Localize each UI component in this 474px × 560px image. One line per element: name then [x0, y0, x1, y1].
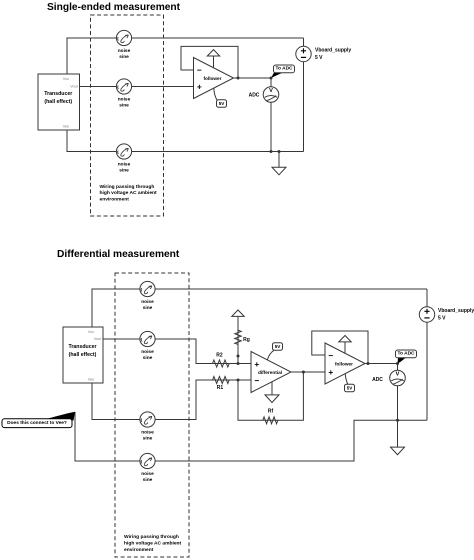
resistor Rf	[263, 417, 278, 424]
svg-text:high voltage AC ambient: high voltage AC ambient	[100, 190, 158, 196]
source Vboard_supply (top)	[296, 46, 311, 61]
junction To-ADC node (top)	[270, 77, 273, 80]
wire follower output (bottom)	[365, 363, 398, 365]
svg-text:sine: sine	[143, 305, 153, 311]
noise sine source N2	[116, 79, 131, 94]
wire Vboard_supply branch	[303, 38, 305, 152]
svg-text:sine: sine	[143, 355, 153, 361]
svg-text:noise: noise	[141, 349, 154, 355]
svg-text:Vcc: Vcc	[88, 330, 94, 334]
svg-text:environment: environment	[124, 547, 154, 553]
noise sine source M1	[140, 281, 155, 296]
5V supply label (follower top)	[214, 88, 227, 107]
svg-text:+: +	[254, 359, 259, 369]
svg-text:Transducer: Transducer	[44, 91, 72, 97]
voltmeter ADC (bottom)	[390, 370, 406, 386]
svg-text:noise: noise	[118, 48, 131, 54]
svg-text:sine: sine	[119, 54, 129, 60]
wire ground stub	[278, 152, 280, 168]
junction Rg lead	[237, 355, 240, 358]
svg-text:Wiring passing through: Wiring passing through	[124, 534, 179, 540]
svg-text:Vee: Vee	[88, 378, 95, 382]
wire Vboard_supply branch (bottom ckt)	[426, 289, 428, 420]
resistor Rg	[235, 330, 241, 344]
power arrow (follower top)	[207, 50, 219, 56]
ground (differential)	[265, 395, 279, 403]
svg-text:(hall effect): (hall effect)	[69, 352, 97, 358]
svg-text:Vee: Vee	[63, 125, 70, 129]
source Vboard_supply (bottom)	[419, 307, 434, 322]
wire power pin (follower top)	[213, 56, 215, 68]
junction follower feedback (bottom)	[367, 362, 370, 365]
svg-text:−: −	[197, 65, 202, 75]
svg-text:noise: noise	[118, 162, 131, 168]
svg-text:To ADC: To ADC	[275, 66, 293, 72]
svg-text:noise: noise	[118, 97, 131, 103]
wire floating bottom rail	[75, 412, 427, 461]
svg-text:environment: environment	[100, 197, 130, 203]
svg-text:To ADC: To ADC	[397, 351, 415, 357]
svg-text:Vboard_supply: Vboard_supply	[315, 47, 351, 53]
flag To ADC (bottom)	[396, 350, 417, 364]
svg-text:5V: 5V	[219, 101, 226, 106]
svg-text:5V: 5V	[275, 344, 282, 349]
op-amp follower (bottom)	[325, 343, 365, 384]
svg-text:Vout: Vout	[70, 84, 79, 88]
op-amp differential	[251, 352, 291, 393]
wire diff output to follower +	[291, 371, 325, 373]
noise sine source N1	[116, 30, 131, 45]
svg-text:noise: noise	[141, 471, 154, 477]
ground (top)	[272, 167, 286, 175]
junction voltmeter-rail (top)	[270, 150, 273, 153]
flag To ADC (top)	[271, 65, 295, 78]
svg-text:+: +	[197, 82, 202, 92]
op-amp follower (top)	[194, 58, 234, 99]
svg-text:high voltage AC ambient: high voltage AC ambient	[124, 540, 182, 546]
5V supply label (follower bottom)	[345, 374, 355, 392]
junction diff output node	[302, 371, 305, 374]
5V supply label (differential)	[267, 343, 282, 360]
wire Vout to follower +	[80, 86, 194, 88]
annotation callout: Does this connect to Vee?	[2, 412, 75, 428]
svg-text:−: −	[328, 351, 333, 361]
svg-text:Vcc: Vcc	[63, 77, 69, 81]
transducer U1 (hall effect) - top	[38, 74, 80, 130]
noise sine source M3	[140, 412, 155, 427]
voltmeter ADC (top)	[263, 87, 279, 103]
wire follower feedback	[181, 46, 238, 78]
svg-text:5 V: 5 V	[315, 55, 323, 61]
dashed noisy-environment box (bottom)	[115, 273, 189, 557]
wire Rf feedback loop	[238, 372, 303, 420]
svg-text:Differential measurement: Differential measurement	[57, 249, 180, 260]
svg-text:V: V	[269, 88, 273, 94]
wire Rg branch	[237, 317, 239, 364]
svg-text:Transducer: Transducer	[69, 344, 97, 350]
svg-text:Rg: Rg	[243, 337, 250, 343]
junction rail crossing (bottom)	[396, 419, 399, 422]
noise sine source N3	[116, 144, 131, 159]
junction To-ADC node (bottom)	[396, 362, 399, 365]
junction ground-rail (top)	[278, 150, 281, 153]
wire Vee bottom rail	[67, 130, 304, 152]
svg-text:sine: sine	[143, 436, 153, 442]
svg-text:ADC: ADC	[372, 377, 383, 383]
svg-text:R1: R1	[217, 385, 224, 391]
wire voltmeter/ground branch (bottom)	[397, 364, 399, 448]
transducer U2 (hall effect) - bottom	[63, 327, 103, 383]
resistor R1	[213, 377, 230, 384]
svg-text:Rf: Rf	[268, 409, 274, 415]
svg-text:−: −	[254, 376, 259, 386]
svg-text:Vboard_supply: Vboard_supply	[438, 308, 474, 314]
wire Vcc top rail (bottom ckt)	[92, 289, 427, 327]
dashed noisy-environment box (top)	[91, 15, 164, 216]
junction diff - node	[237, 379, 240, 382]
junction feedback/output (top)	[237, 77, 240, 80]
junction diff + node	[237, 362, 240, 365]
svg-text:R2: R2	[216, 352, 223, 358]
wire Vcc top rail	[67, 38, 304, 74]
power arrow (follower bottom)	[339, 336, 351, 342]
svg-text:+: +	[328, 367, 333, 377]
svg-text:follower: follower	[204, 76, 222, 81]
wire power pin (follower bottom)	[344, 342, 346, 354]
ground (bottom right)	[391, 447, 405, 455]
svg-text:Does this connect to Vee?: Does this connect to Vee?	[7, 420, 67, 426]
svg-text:V: V	[396, 372, 400, 378]
svg-text:sine: sine	[119, 103, 129, 109]
wire follower feedback (bottom)	[312, 331, 368, 364]
wire follower output	[234, 77, 272, 79]
svg-text:Vout: Vout	[94, 337, 103, 341]
noise sine source M2	[140, 331, 155, 346]
resistor R2	[213, 360, 230, 367]
wire voltmeter branch	[270, 78, 272, 152]
svg-text:5V: 5V	[347, 386, 354, 391]
svg-text:Wiring passing through: Wiring passing through	[100, 184, 155, 190]
svg-text:ADC: ADC	[249, 92, 260, 98]
svg-text:Single-ended measurement: Single-ended measurement	[47, 2, 181, 13]
power arrow (Rg)	[232, 310, 244, 316]
svg-text:(hall effect): (hall effect)	[44, 99, 72, 105]
wire diff ground stub	[271, 382, 273, 395]
wire Vout to R2 to diff +	[103, 339, 251, 364]
noise sine source M4	[140, 453, 155, 468]
svg-text:follower: follower	[335, 361, 353, 366]
svg-text:sine: sine	[119, 168, 129, 174]
svg-text:sine: sine	[143, 477, 153, 483]
svg-text:noise: noise	[141, 430, 154, 436]
svg-text:noise: noise	[141, 299, 154, 305]
svg-text:differential: differential	[258, 370, 282, 375]
svg-text:5 V: 5 V	[438, 316, 446, 322]
wire Vee to R1 to diff -	[92, 380, 251, 420]
